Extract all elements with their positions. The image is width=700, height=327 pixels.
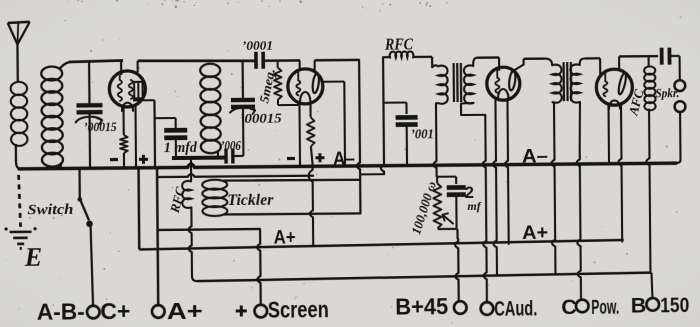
label Spkr xyxy=(655,86,679,100)
label A+ terminal xyxy=(167,298,203,324)
antenna coil L1 xyxy=(10,42,28,169)
label .00015 xyxy=(84,119,118,134)
wire speaker return xyxy=(675,112,681,163)
svg-text:’00015: ’00015 xyxy=(84,119,118,134)
label + V2 xyxy=(315,153,324,162)
tickler coil xyxy=(202,179,360,217)
svg-text:Spkr.: Spkr. xyxy=(655,86,679,100)
switch xyxy=(77,168,93,227)
wire V1 plus leg xyxy=(134,105,137,168)
svg-text:C: C xyxy=(561,295,577,319)
bus B+150 feed xyxy=(197,273,651,282)
bus A+ xyxy=(139,240,624,249)
wire riser x139 xyxy=(137,168,140,250)
svg-text:Tickler: Tickler xyxy=(227,192,274,209)
wire V2 minus leg xyxy=(298,103,301,166)
label + Screen xyxy=(236,305,247,316)
triode V3 xyxy=(487,67,520,101)
wire top rail stage2 xyxy=(138,60,256,62)
label A+ right xyxy=(522,223,548,244)
wire grid V2 xyxy=(299,60,301,70)
wire screen drop xyxy=(257,229,261,305)
label .00015 (2) xyxy=(240,111,282,126)
label .001 xyxy=(411,127,434,142)
wire V3 minus leg xyxy=(492,99,497,276)
svg-text:’00015: ’00015 xyxy=(240,111,282,126)
wire CAud drop xyxy=(482,115,487,301)
label Tickler xyxy=(227,192,274,209)
label B 150 xyxy=(631,293,690,318)
wire plate V3 xyxy=(512,59,545,72)
svg-text:B+45: B+45 xyxy=(395,293,448,319)
terminal B+45 xyxy=(454,301,467,314)
triode V4 xyxy=(596,69,632,109)
terminal C+ xyxy=(86,223,99,318)
label E xyxy=(24,243,43,272)
capacitor 1mfd xyxy=(155,118,188,157)
wire plate V2 top xyxy=(315,60,360,70)
antenna xyxy=(8,22,31,83)
label 5meg xyxy=(256,67,278,105)
tuning coil L3 xyxy=(200,62,221,157)
wire plate V4 xyxy=(619,56,658,70)
wire V1 minus leg + resistor R1 xyxy=(120,105,128,168)
svg-text:Screen: Screen xyxy=(268,296,329,323)
svg-text:’001: ’001 xyxy=(411,127,434,142)
resistor 5meg xyxy=(274,60,301,105)
capacitor .001 xyxy=(383,102,418,165)
terminal B150 xyxy=(646,298,659,311)
label 100000 xyxy=(408,179,440,236)
wire stub 174 xyxy=(360,173,384,175)
label A-B- xyxy=(37,298,85,324)
wire stage3 left riser xyxy=(380,57,384,174)
RF choke RFC xyxy=(182,158,197,281)
wire T2 primary drop xyxy=(551,102,556,274)
wire B150 drop xyxy=(651,273,652,298)
wire grid V1 xyxy=(120,60,122,74)
terminal CAud xyxy=(481,302,494,315)
label A- stage3 xyxy=(522,146,548,167)
wire riser x157 xyxy=(157,168,158,305)
svg-text:150: 150 xyxy=(660,293,689,317)
wire V2 plus drop xyxy=(309,163,314,245)
speaker jack sleeve xyxy=(675,101,686,112)
label - V1 xyxy=(110,158,118,161)
label A+ left xyxy=(274,227,296,248)
svg-text:C+: C+ xyxy=(100,298,130,324)
tetrode V1 xyxy=(109,71,154,111)
svg-text:Switch: Switch xyxy=(27,202,73,218)
wire V2 plus leg + resistor R2 xyxy=(307,103,315,163)
wire tickler feed drop xyxy=(356,60,360,214)
svg-text:mf: mf xyxy=(467,199,481,213)
AF choke AFC xyxy=(644,56,657,273)
svg-text:B: B xyxy=(631,294,647,318)
wire T1 primary drop xyxy=(433,103,437,176)
label C Pow xyxy=(561,295,619,320)
wire main filament rail xyxy=(19,160,676,169)
arrow wiper xyxy=(442,213,453,223)
label C+ xyxy=(100,298,130,324)
wire screen line xyxy=(158,228,260,231)
label RFC2 xyxy=(384,34,414,53)
label - V2 xyxy=(287,157,295,160)
label RFC xyxy=(166,185,188,215)
RF choke RFC2 xyxy=(383,51,432,67)
wire V4 plus leg xyxy=(618,104,622,242)
wire C2 bottom lead xyxy=(242,105,245,155)
svg-text:’0001: ’0001 xyxy=(242,38,273,53)
wire V3 plus leg xyxy=(504,99,508,244)
label B+45 xyxy=(395,293,448,319)
label A- V2 xyxy=(333,149,355,170)
capacitor 2mf xyxy=(447,187,466,229)
audio transformer T2 xyxy=(545,58,600,103)
terminal CPow xyxy=(576,300,589,313)
capacitor .006 xyxy=(226,148,244,163)
capacitor .0001 xyxy=(256,51,300,68)
label mf xyxy=(467,199,481,213)
svg-text:’006: ’006 xyxy=(221,139,241,154)
capacitor speaker xyxy=(662,48,680,81)
variable capacitor C2 .00015 xyxy=(230,61,255,114)
label AFC xyxy=(625,87,647,117)
audio transformer T1 xyxy=(432,57,499,115)
wire B+45 drop xyxy=(455,229,459,300)
triode V2 xyxy=(288,69,323,104)
speaker jack tip xyxy=(674,80,685,91)
svg-text:E: E xyxy=(24,243,43,272)
label Screen xyxy=(268,296,329,323)
label + V1 xyxy=(139,155,148,164)
wire heavy bar xyxy=(172,156,225,160)
tank coil L2 xyxy=(41,62,72,169)
resistor 100000 ohm xyxy=(433,177,456,229)
wire grid V3 xyxy=(498,57,500,70)
label Switch xyxy=(27,202,73,218)
label .0001 xyxy=(242,38,273,53)
svg-text:A-B-: A-B- xyxy=(37,298,85,324)
svg-text:Pow.: Pow. xyxy=(591,296,619,319)
terminal Screen xyxy=(254,305,267,318)
svg-text:RFC: RFC xyxy=(384,34,414,53)
wire rail2 segment xyxy=(157,173,313,177)
wire plate V1 xyxy=(137,61,139,72)
wire x345 drop xyxy=(343,82,346,166)
variable capacitor C1 .00015 xyxy=(75,61,103,168)
dashed earth lead xyxy=(19,175,21,227)
svg-text:CAud.: CAud. xyxy=(494,296,537,320)
wire V4 minus leg xyxy=(607,104,610,164)
label 2 xyxy=(465,184,474,202)
wire RC node bar xyxy=(438,228,457,230)
ground E xyxy=(4,227,36,250)
label 1 mfd xyxy=(164,140,198,156)
svg-text:A+: A+ xyxy=(167,298,203,324)
wire grid V4 xyxy=(599,58,601,76)
svg-text:1 mfd: 1 mfd xyxy=(164,140,198,156)
svg-text:A+: A+ xyxy=(522,223,548,244)
label CAud xyxy=(494,296,537,320)
wire 1mfd junction drop xyxy=(153,100,156,167)
svg-text:A+: A+ xyxy=(274,227,296,248)
terminal A+ xyxy=(152,305,165,318)
label .006 xyxy=(221,139,241,154)
wire top rail stage1 xyxy=(69,60,123,61)
wire T2 secondary drop to CPow xyxy=(576,102,582,299)
wire plate V2 side stub xyxy=(322,80,344,82)
